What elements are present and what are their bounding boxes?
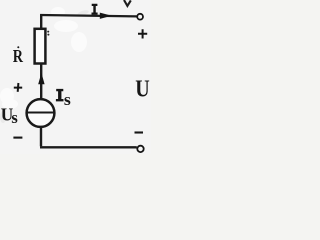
svg-text:R: R (13, 45, 23, 66)
polarity + (top right, voltage U) (138, 29, 147, 38)
stray mark (scan artifact chevron, top edge) (124, 0, 131, 6)
svg-text:U: U (135, 75, 150, 102)
label I (current) (92, 4, 98, 15)
polarity - (right, above bottom terminal) (135, 131, 144, 133)
bar of current source (26, 112, 54, 114)
wire: top rail from corner to right terminal (40, 15, 137, 16)
wire: current source bottom down to bottom rail (40, 127, 42, 146)
current arrow on top rail (direction of I) (100, 13, 112, 19)
dot above R (scan artifact) (17, 46, 19, 48)
label Is (56, 89, 64, 102)
polarity - (left, below Us) (13, 137, 22, 139)
wire: bottom rail to right terminal (40, 146, 137, 148)
wire: resistor bottom to current source top, with arrowhead of Is pointing up (40, 63, 42, 99)
node: top-right open terminal (137, 14, 143, 20)
current source Is (circle with horizontal bar) (27, 99, 55, 127)
colon dots right of resistor (scan artifact) (47, 31, 49, 33)
polarity + (left, source voltage Us) (14, 83, 22, 92)
background mottling (0, 7, 87, 109)
wire: top-left vertical segment from top rail corner down to resistor top (40, 14, 42, 28)
arrowhead of source current Is (points up toward resistor) (38, 73, 44, 84)
resistor R (35, 29, 46, 64)
svg-text:s: s (11, 108, 18, 127)
node: bottom-right open terminal (137, 146, 143, 152)
svg-text:s: s (64, 89, 71, 109)
